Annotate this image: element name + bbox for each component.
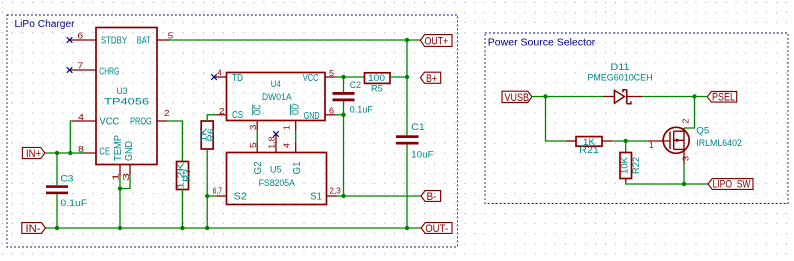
svg-text:R5: R5: [371, 83, 383, 93]
svg-text:LIPO_SW: LIPO_SW: [713, 178, 751, 190]
IC U5 FS8205A body: [227, 153, 327, 205]
U3 pin 6 STDBY: [70, 30, 97, 40]
wire IN+ net: [45, 152, 86, 154]
no-connect X on U5 pin 1,8: [273, 131, 279, 137]
svg-text:5: 5: [329, 68, 334, 78]
svg-text:1: 1: [649, 140, 654, 150]
svg-text:B+: B+: [426, 73, 437, 85]
svg-text:6: 6: [329, 106, 334, 116]
svg-text:S2: S2: [234, 191, 248, 202]
wire PROG to R3: [167, 121, 182, 162]
diode D11 PMEG6010CEH: [587, 62, 652, 104]
junction S2 net: [205, 194, 209, 198]
U5 pin 5 G2: [248, 142, 258, 152]
svg-text:VUSB: VUSB: [505, 92, 530, 104]
svg-text:1: 1: [282, 125, 292, 130]
junction PSEL net: [692, 94, 696, 98]
U4 pin 6 GND: [325, 106, 335, 116]
sheet box LiPo Charger: [7, 15, 458, 247]
IC U4 DW01A body: [227, 73, 326, 122]
svg-text:Q5: Q5: [696, 126, 709, 136]
wire VCC pin4 down to IN+ net: [70, 121, 72, 153]
hierarchical label LIPO_SW: [708, 178, 753, 190]
wire Q5 drain down to LIPO_SW net: [683, 164, 685, 185]
svg-text:3: 3: [248, 124, 258, 130]
capacitor C2 0.1uF: [333, 77, 374, 115]
junction U3 pin1 net bottom: [118, 226, 122, 230]
resistor R22 10K: [620, 141, 641, 182]
U4 pin 3 OC: [248, 121, 258, 131]
junction pins 1-3: [118, 186, 122, 190]
wire VUSB down to R21: [546, 97, 567, 142]
svg-text:TEMP: TEMP: [113, 135, 124, 161]
svg-text:BAT: BAT: [137, 36, 151, 47]
junction LIPO_SW net: [682, 182, 686, 186]
svg-text:C2: C2: [350, 80, 361, 90]
svg-text:2: 2: [164, 108, 170, 118]
svg-text:100: 100: [368, 73, 385, 83]
junction OUT+: [405, 38, 409, 42]
svg-text:IN-: IN-: [26, 223, 41, 235]
IC U3 TP4056 body: [96, 28, 157, 165]
svg-text:VCC: VCC: [303, 73, 319, 84]
U3 pin 1 TEMP: [111, 165, 121, 182]
wire U3 pin1 down to GND net: [119, 176, 121, 229]
U3 pin 3 GND: [121, 165, 131, 182]
capacitor C1 10uF: [396, 40, 434, 228]
junction R6 net to GND: [205, 226, 209, 230]
wire PSEL down to Q5 source: [684, 97, 695, 129]
svg-text:Power Source Selector: Power Source Selector: [488, 38, 596, 49]
junction C1 bottom / OUT-: [405, 226, 409, 230]
svg-text:TP4056: TP4056: [104, 97, 149, 107]
hierarchical label OUT-: [421, 223, 452, 235]
wire GND bottom net IN- to OUT-: [46, 227, 422, 229]
svg-text:GND: GND: [304, 111, 320, 122]
svg-text:U5: U5: [270, 165, 282, 175]
svg-text:IN+: IN+: [26, 148, 41, 160]
resistor R6 1K: [199, 121, 216, 149]
capacitor C3 0.1uF: [46, 153, 88, 228]
U4 pin 4 TD: [214, 68, 227, 78]
junction B+: [405, 75, 409, 79]
junction C3 bottom: [55, 226, 59, 230]
wire U4 GND to C2 bottom: [335, 114, 344, 116]
hierarchical label OUT+: [407, 35, 452, 48]
svg-text:B-: B-: [427, 191, 437, 203]
junction VUSB net: [543, 94, 547, 98]
sheet box Power Source Selector: [485, 33, 788, 204]
hierarchical label B+: [420, 72, 440, 85]
svg-text:6,7: 6,7: [213, 186, 223, 196]
junction C2 top / VCC: [341, 75, 345, 79]
svg-text:10K: 10K: [620, 157, 630, 174]
wire BAT net U3 pin5 to OUT+: [170, 39, 407, 41]
svg-text:1: 1: [111, 173, 121, 181]
wire U4 OD to U5 G1: [295, 131, 297, 143]
svg-text:2,3: 2,3: [329, 186, 341, 196]
svg-text:U3: U3: [117, 86, 128, 96]
svg-text:GND: GND: [124, 141, 135, 161]
no-connect X on U4 pin 4: [211, 74, 217, 80]
wire R3 to GND net: [181, 190, 183, 229]
junction R3 bottom: [180, 226, 184, 230]
svg-text:OUT-: OUT-: [425, 223, 448, 235]
U5 pin 2,3 S1: [327, 186, 342, 196]
hierarchical label B-: [421, 191, 441, 203]
svg-text:R21: R21: [579, 145, 599, 155]
wire DW01A CS to R6 top: [207, 115, 216, 121]
svg-text:STDBY: STDBY: [101, 36, 127, 47]
hierarchical label IN-: [22, 223, 46, 235]
junction C2 bottom: [341, 113, 345, 117]
svg-text:CS: CS: [232, 110, 243, 121]
svg-text:DW01A: DW01A: [262, 92, 292, 102]
svg-text:IRLML6402: IRLML6402: [696, 138, 742, 148]
svg-text:R3: R3: [182, 169, 192, 182]
svg-text:S1: S1: [310, 191, 322, 202]
resistor R21 1K: [566, 137, 612, 156]
svg-text:0.1uF: 0.1uF: [350, 104, 374, 114]
svg-text:OD: OD: [290, 104, 301, 115]
svg-text:3: 3: [680, 156, 690, 161]
wire S1 to B-: [337, 195, 422, 197]
U4 pin 5 VCC: [325, 68, 335, 78]
U3 pin 4 VCC: [72, 112, 96, 122]
svg-text:4: 4: [217, 68, 222, 78]
no-connect X on U3 pin 6: [67, 37, 73, 43]
svg-text:5: 5: [248, 142, 258, 148]
U5 pin 6,7 S2: [213, 186, 227, 196]
junction B- vertical: [341, 194, 345, 198]
svg-text:4: 4: [78, 112, 84, 122]
resistor R3 1.2K: [176, 162, 193, 190]
U3 pin 5 BAT: [157, 30, 173, 40]
U5 pin 4 G1: [282, 143, 296, 153]
hierarchical label PSEL: [707, 92, 737, 104]
svg-text:R6: R6: [206, 129, 216, 142]
svg-text:D11: D11: [610, 62, 629, 72]
wire S2 to R6 net: [207, 195, 216, 197]
svg-text:CE: CE: [99, 147, 110, 158]
svg-text:OUT+: OUT+: [425, 36, 449, 48]
svg-text:TD: TD: [232, 73, 243, 84]
svg-text:PROG: PROG: [130, 116, 152, 127]
wire VUSB to D11: [532, 96, 603, 98]
svg-text:7: 7: [78, 60, 84, 70]
wire R21 to gate junction: [612, 140, 648, 142]
svg-text:CHRG: CHRG: [99, 66, 119, 77]
U3 pin 7 CHRG: [70, 60, 97, 70]
transistor Q5 IRLML6402: [648, 118, 742, 163]
svg-text:G1: G1: [292, 161, 303, 174]
junction C3 top: [55, 151, 59, 155]
junction gate/R22: [624, 139, 628, 143]
svg-text:2: 2: [681, 118, 691, 123]
svg-text:LiPo Charger: LiPo Charger: [15, 19, 76, 30]
svg-text:5: 5: [168, 30, 174, 40]
svg-text:10uF: 10uF: [411, 149, 434, 159]
wire R22 bottom to LIPO_SW: [626, 182, 708, 185]
no-connect X on U3 pin 7: [67, 67, 73, 73]
svg-text:C1: C1: [411, 122, 425, 132]
wire D11 to PSEL: [643, 96, 708, 98]
hierarchical label VUSB: [502, 91, 532, 104]
svg-text:PSEL: PSEL: [712, 92, 735, 104]
svg-text:VCC: VCC: [99, 116, 119, 127]
svg-text:U4: U4: [271, 79, 281, 89]
U3 pin 2 PROG: [157, 108, 170, 121]
svg-text:0.1uF: 0.1uF: [60, 198, 87, 208]
wire U3 pin3 bend to pin1: [120, 176, 130, 189]
svg-text:6: 6: [78, 30, 84, 40]
svg-text:G2: G2: [253, 161, 264, 174]
wire U4 OC to U5 G2: [256, 131, 258, 143]
svg-text:OC: OC: [253, 104, 264, 115]
U3 pin 8 CE: [78, 144, 96, 154]
svg-text:C3: C3: [60, 174, 73, 184]
wire C2/GND down to B-: [343, 115, 345, 196]
resistor R5 100: [344, 73, 408, 94]
junction U3 VCC wire at IN+: [68, 151, 72, 155]
U4 pin 1 OD: [282, 121, 296, 131]
svg-text:2: 2: [219, 106, 225, 116]
wire R6 bottom to GND net: [206, 149, 208, 228]
svg-text:R22: R22: [631, 157, 641, 174]
svg-text:FS8205A: FS8205A: [259, 178, 295, 188]
U5 pin 1,8: [267, 134, 277, 153]
U4 pin 2 CS: [217, 106, 227, 116]
svg-text:1,8: 1,8: [267, 136, 277, 148]
svg-text:4: 4: [282, 143, 292, 148]
hierarchical label IN+: [22, 147, 45, 160]
svg-text:PMEG6010CEH: PMEG6010CEH: [587, 73, 652, 83]
wire U4 VCC to C2 top: [335, 76, 344, 78]
